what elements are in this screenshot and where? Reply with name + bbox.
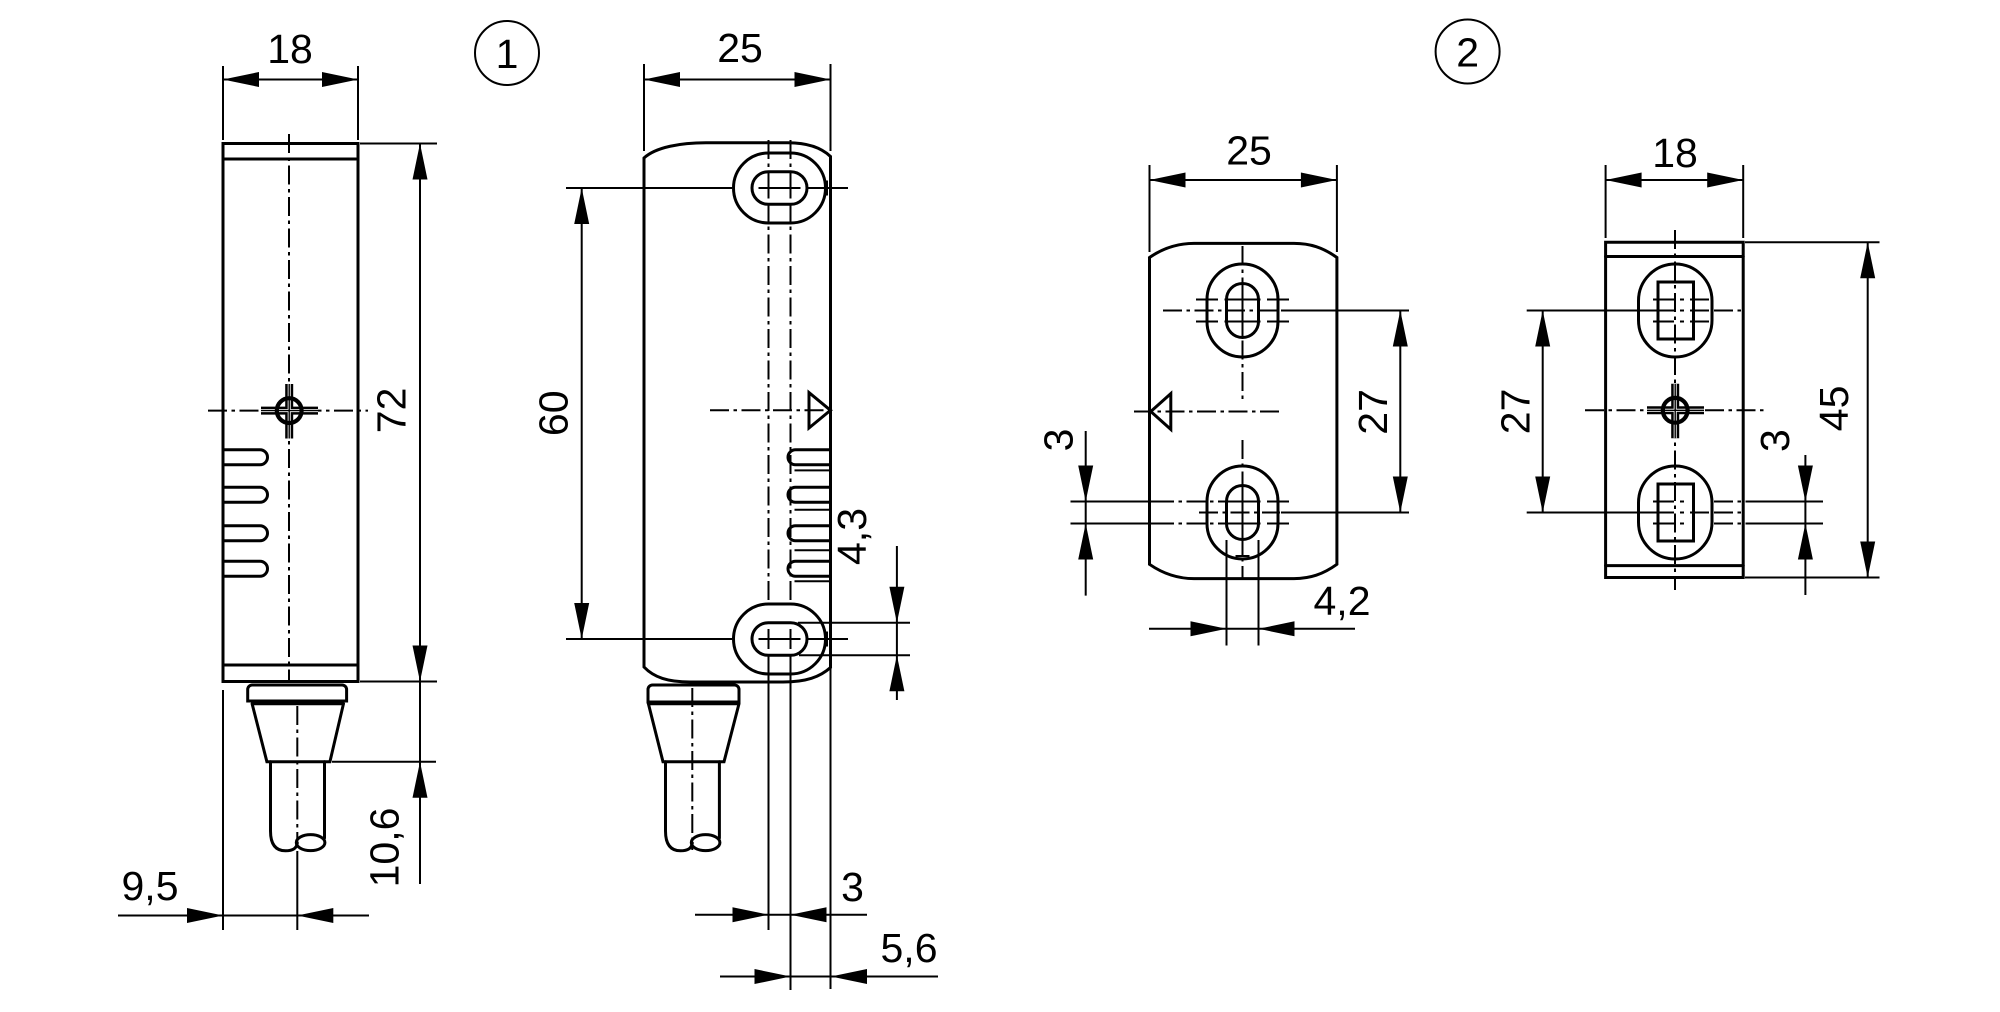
dimension 27 : dimension line: [1399, 311, 1401, 513]
cable flange: [648, 685, 739, 702]
bottom slot lower center tick: [1225, 523, 1290, 525]
dimension 25 : dimension line: [644, 79, 831, 81]
top mounting slot: [1227, 284, 1259, 338]
dimension 3 : extension lines: [1714, 502, 1750, 524]
svg-text:3: 3: [1752, 429, 1798, 452]
dimension 27 : extension lines: [1281, 311, 1409, 513]
svg-text:60: 60: [531, 390, 577, 436]
vent slot 4: [223, 561, 268, 576]
svg-text:27: 27: [1350, 389, 1396, 435]
top mounting boss: [734, 153, 826, 223]
dimension 18 : extension lines: [223, 66, 358, 140]
slot centerline left (vertical, dash-dot): [768, 140, 770, 600]
dimension 25 : extension lines: [644, 64, 831, 151]
top hole mid centerline right part: [1680, 310, 1709, 312]
dimension 4,3 : extension lines: [798, 623, 910, 656]
vent slot 1: [223, 450, 268, 465]
top cap line: [223, 158, 356, 161]
svg-text:2: 2: [1456, 30, 1479, 76]
grip rib line 4: [795, 580, 831, 582]
drawing callout circle 2: [1436, 20, 1500, 84]
dimension 60 : dimension line: [581, 188, 583, 639]
top hole horizontal centerline right segment: [806, 181, 848, 196]
svg-text:45: 45: [1811, 386, 1857, 432]
dimension 25 : extension lines: [1150, 165, 1337, 252]
dimension 4,3 : dimension line: [896, 546, 898, 700]
grip slot 2: [788, 487, 830, 502]
cable flange: [248, 685, 347, 701]
sensing axis centerline: [710, 409, 834, 411]
top mounting boss (side): [1639, 264, 1713, 357]
drawing callout circle 1: [475, 21, 539, 85]
dimension 72 : extension lines: [360, 144, 437, 682]
dimension 5,6 : right extension line: [830, 668, 832, 989]
dimension 4,2 : dimension line: [1149, 628, 1355, 630]
top mounting boss: [1207, 264, 1278, 357]
bottom mounting slot: [1227, 486, 1259, 540]
bottom cap line: [1606, 564, 1744, 567]
slot centerline left extension below: [768, 656, 770, 930]
vent slot 2: [223, 487, 268, 502]
dimension 27 : extension lines: [1527, 311, 1674, 513]
horizontal centerline through sensing point: [208, 410, 368, 412]
sensor body front outline: [644, 143, 831, 682]
bottom hole mid centerline right part: [1680, 512, 1709, 514]
bottom mounting boss: [1207, 466, 1278, 559]
dimension 25 : dimension line: [1150, 179, 1337, 181]
svg-text:9,5: 9,5: [122, 863, 179, 909]
bottom mounting slot: [752, 623, 807, 656]
bottom hole inner rectangle: [1658, 484, 1694, 541]
svg-text:1: 1: [496, 31, 519, 77]
top hole lower center tick: [1653, 321, 1709, 323]
bottom cap line: [223, 664, 358, 667]
top slot upper center tick: [1196, 299, 1289, 301]
dimension 60 : extension lines: [566, 188, 732, 639]
dimension 18 : extension lines: [1606, 165, 1744, 238]
vent slot 3: [223, 526, 268, 541]
cable right edge: [718, 762, 721, 838]
top mounting slot: [752, 172, 807, 205]
cable centerline: [296, 706, 298, 845]
dimension 3 : dimension line: [1804, 455, 1806, 595]
dimension 72 : dimension line: [419, 144, 421, 682]
cable: [666, 762, 693, 851]
top slot lower center tick: [1196, 321, 1289, 323]
dimension 45 : dimension line: [1867, 242, 1869, 577]
sensing point marker triangle: [1151, 394, 1171, 430]
top slot center crosses: [759, 178, 801, 198]
sensor body front outline: [1150, 243, 1337, 578]
top hole vertical solid through slot: [1242, 285, 1244, 336]
svg-text:5,6: 5,6: [881, 925, 938, 971]
dimension 45 : extension lines: [1745, 242, 1880, 577]
bottom hole vertical solid through slot: [1242, 487, 1244, 556]
bottom slot center crosses: [759, 629, 801, 649]
top hole upper center tick: [1653, 299, 1709, 301]
svg-text:3: 3: [841, 864, 864, 910]
cable end ellipse: [691, 835, 720, 851]
grip rib line 3: [795, 549, 831, 551]
bottom hole lower center tick: [1653, 523, 1684, 525]
sensor body side outline: [1606, 242, 1744, 577]
cable right edge: [323, 762, 326, 838]
top hole mid centerline: [1163, 310, 1280, 312]
bottom hole vertical centerline: [1242, 440, 1244, 578]
vertical centerline: [1674, 230, 1676, 590]
sensor body side outline: [223, 144, 358, 682]
dimension 3 : dimension line: [695, 914, 867, 916]
strain relief cone: [252, 704, 343, 762]
svg-text:72: 72: [368, 388, 414, 434]
dimension 10,6 : extension line: [332, 761, 436, 763]
svg-text:4,2: 4,2: [1314, 578, 1371, 624]
bottom slot upper center tick: [1225, 501, 1290, 503]
dimension 18 : dimension line: [223, 79, 358, 81]
grip slot 3: [788, 526, 830, 541]
slot centerline right (vertical, dash-dot): [790, 140, 792, 600]
svg-text:25: 25: [1226, 128, 1272, 174]
svg-text:18: 18: [267, 26, 313, 72]
bottom mounting boss: [734, 604, 826, 674]
svg-text:18: 18: [1652, 130, 1698, 176]
svg-text:25: 25: [717, 25, 763, 71]
bottom mounting boss (side): [1639, 466, 1713, 559]
strain relief cone: [648, 704, 739, 762]
grip rib line 1: [795, 469, 831, 471]
slot centerline right extension below: [790, 656, 792, 990]
cable end ellipse: [296, 835, 325, 851]
svg-text:10,6: 10,6: [361, 808, 407, 888]
svg-text:3: 3: [1036, 429, 1082, 452]
top cap line: [1606, 255, 1744, 258]
grip slot 4: [788, 561, 830, 576]
dimension 4,2 : extension lines: [1227, 540, 1259, 646]
bottom hole mid centerline: [1199, 512, 1280, 514]
top hole inner rectangle: [1658, 282, 1694, 339]
dimension 3 : dimension line: [1085, 431, 1087, 596]
cable centerline: [691, 688, 693, 850]
sensing point marker triangle: [809, 393, 831, 428]
svg-text:27: 27: [1493, 389, 1539, 435]
svg-text:4,3: 4,3: [829, 508, 875, 565]
dimension 9,5 : extension lines: [223, 690, 297, 930]
vertical centerline of body: [288, 134, 290, 681]
dimension 5,6 : dimension line: [720, 976, 938, 978]
dimension 27 : dimension line: [1542, 311, 1544, 513]
dimension 10,6 : dimension line below: [419, 682, 421, 885]
dimension 3 : extension dash-dot into hole: [1155, 502, 1225, 524]
sensing axis centerline: [1585, 409, 1765, 411]
dimension 9,5 : dimension line: [118, 915, 369, 917]
dimension 18 : dimension line: [1606, 179, 1744, 181]
bottom hole upper center tick: [1653, 501, 1684, 503]
top hole vertical centerline: [1242, 246, 1244, 400]
grip rib line 2: [795, 509, 831, 511]
grip slot 1: [788, 450, 830, 465]
centerline end tick: [1236, 555, 1250, 557]
cable: [271, 762, 298, 851]
bottom hole horizontal centerline right segment: [806, 632, 848, 647]
dimension 3 : extension lines: [1071, 502, 1156, 524]
sensing axis centerline: [1134, 411, 1280, 413]
sensing point target symbol: [261, 384, 318, 439]
sensing point target symbol: [1647, 384, 1704, 439]
